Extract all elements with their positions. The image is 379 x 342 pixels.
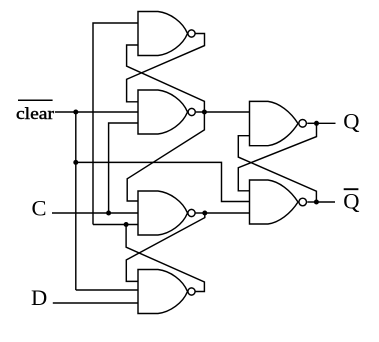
node C/clock junction [106, 211, 111, 216]
wire U4out horizontal into U3 [93, 224, 138, 226]
wire U3 output stub [196, 212, 205, 214]
wire U3 output to U6 [205, 212, 250, 214]
wire U4out rail up to U1 [93, 23, 138, 225]
node U4out/U3 junction [124, 222, 129, 227]
wire Qbar feedback to U5 input [238, 136, 316, 202]
wire U2 output to U5 [204, 111, 250, 113]
wire clear input to U2 [55, 111, 138, 113]
wire clear into U4 [76, 289, 138, 291]
svg-text:D: D [31, 285, 47, 310]
wire U2 output to U1 input [127, 45, 205, 112]
NAND gate U3 [138, 191, 188, 235]
bubble U2 [188, 108, 195, 115]
overline for Qbar label [344, 188, 359, 190]
wire D input to U4 [53, 302, 138, 304]
wire C input to U3 [52, 212, 138, 214]
wire U6 output stub [307, 201, 316, 203]
bubble U4 [188, 288, 195, 295]
bubble U3 [188, 209, 195, 216]
NAND gate U2 [138, 90, 188, 134]
NAND gate U4 (bottom) [138, 270, 188, 314]
bubble U1 [188, 30, 195, 37]
wire U3 output down to U4 input [126, 213, 205, 281]
wire Qbar output [316, 201, 335, 203]
wire Q output [317, 122, 336, 124]
node U3 output junction [202, 211, 207, 216]
node U2 output junction [202, 110, 207, 115]
wire clear vertical rail [75, 112, 77, 290]
svg-text:C: C [32, 195, 47, 220]
wire U1 output to U2 input [127, 34, 205, 102]
wire Q feedback to U6 input [238, 123, 316, 191]
node Qbar junction [314, 200, 319, 205]
wire U2 output down to U3 input [127, 112, 204, 201]
svg-text:Q: Q [343, 188, 359, 213]
NAND gate U6 (Qbar output) [250, 180, 299, 224]
svg-text:clear: clear [16, 104, 54, 123]
wire U2 output stub [196, 111, 204, 113]
overline for clear label [18, 99, 53, 101]
wire clear branch to U6 [76, 162, 250, 201]
bubble U5 [299, 120, 307, 128]
svg-text:Q: Q [343, 109, 359, 134]
wire U4 output up to U3/U1 inputs [126, 225, 204, 292]
wire U5 output stub [307, 122, 316, 124]
node clear/U6 branch junction [73, 160, 78, 165]
NAND gate U5 (Q output) [250, 101, 299, 145]
wire C riser to U2 clock input [109, 123, 138, 213]
node clear/U2 junction [73, 110, 78, 115]
node Q junction [314, 121, 319, 126]
NAND gate U1 (top) [138, 12, 188, 56]
bubble U6 [299, 198, 307, 206]
